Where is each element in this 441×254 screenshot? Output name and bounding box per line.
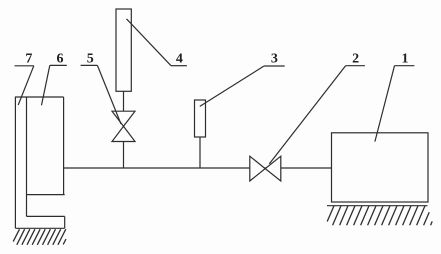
svg-text:5: 5 <box>87 52 94 67</box>
svg-text:2: 2 <box>352 52 359 67</box>
svg-text:7: 7 <box>25 52 32 67</box>
svg-text:6: 6 <box>57 52 64 67</box>
svg-text:1: 1 <box>402 52 409 67</box>
svg-text:4: 4 <box>176 52 183 67</box>
svg-text:3: 3 <box>271 52 278 67</box>
